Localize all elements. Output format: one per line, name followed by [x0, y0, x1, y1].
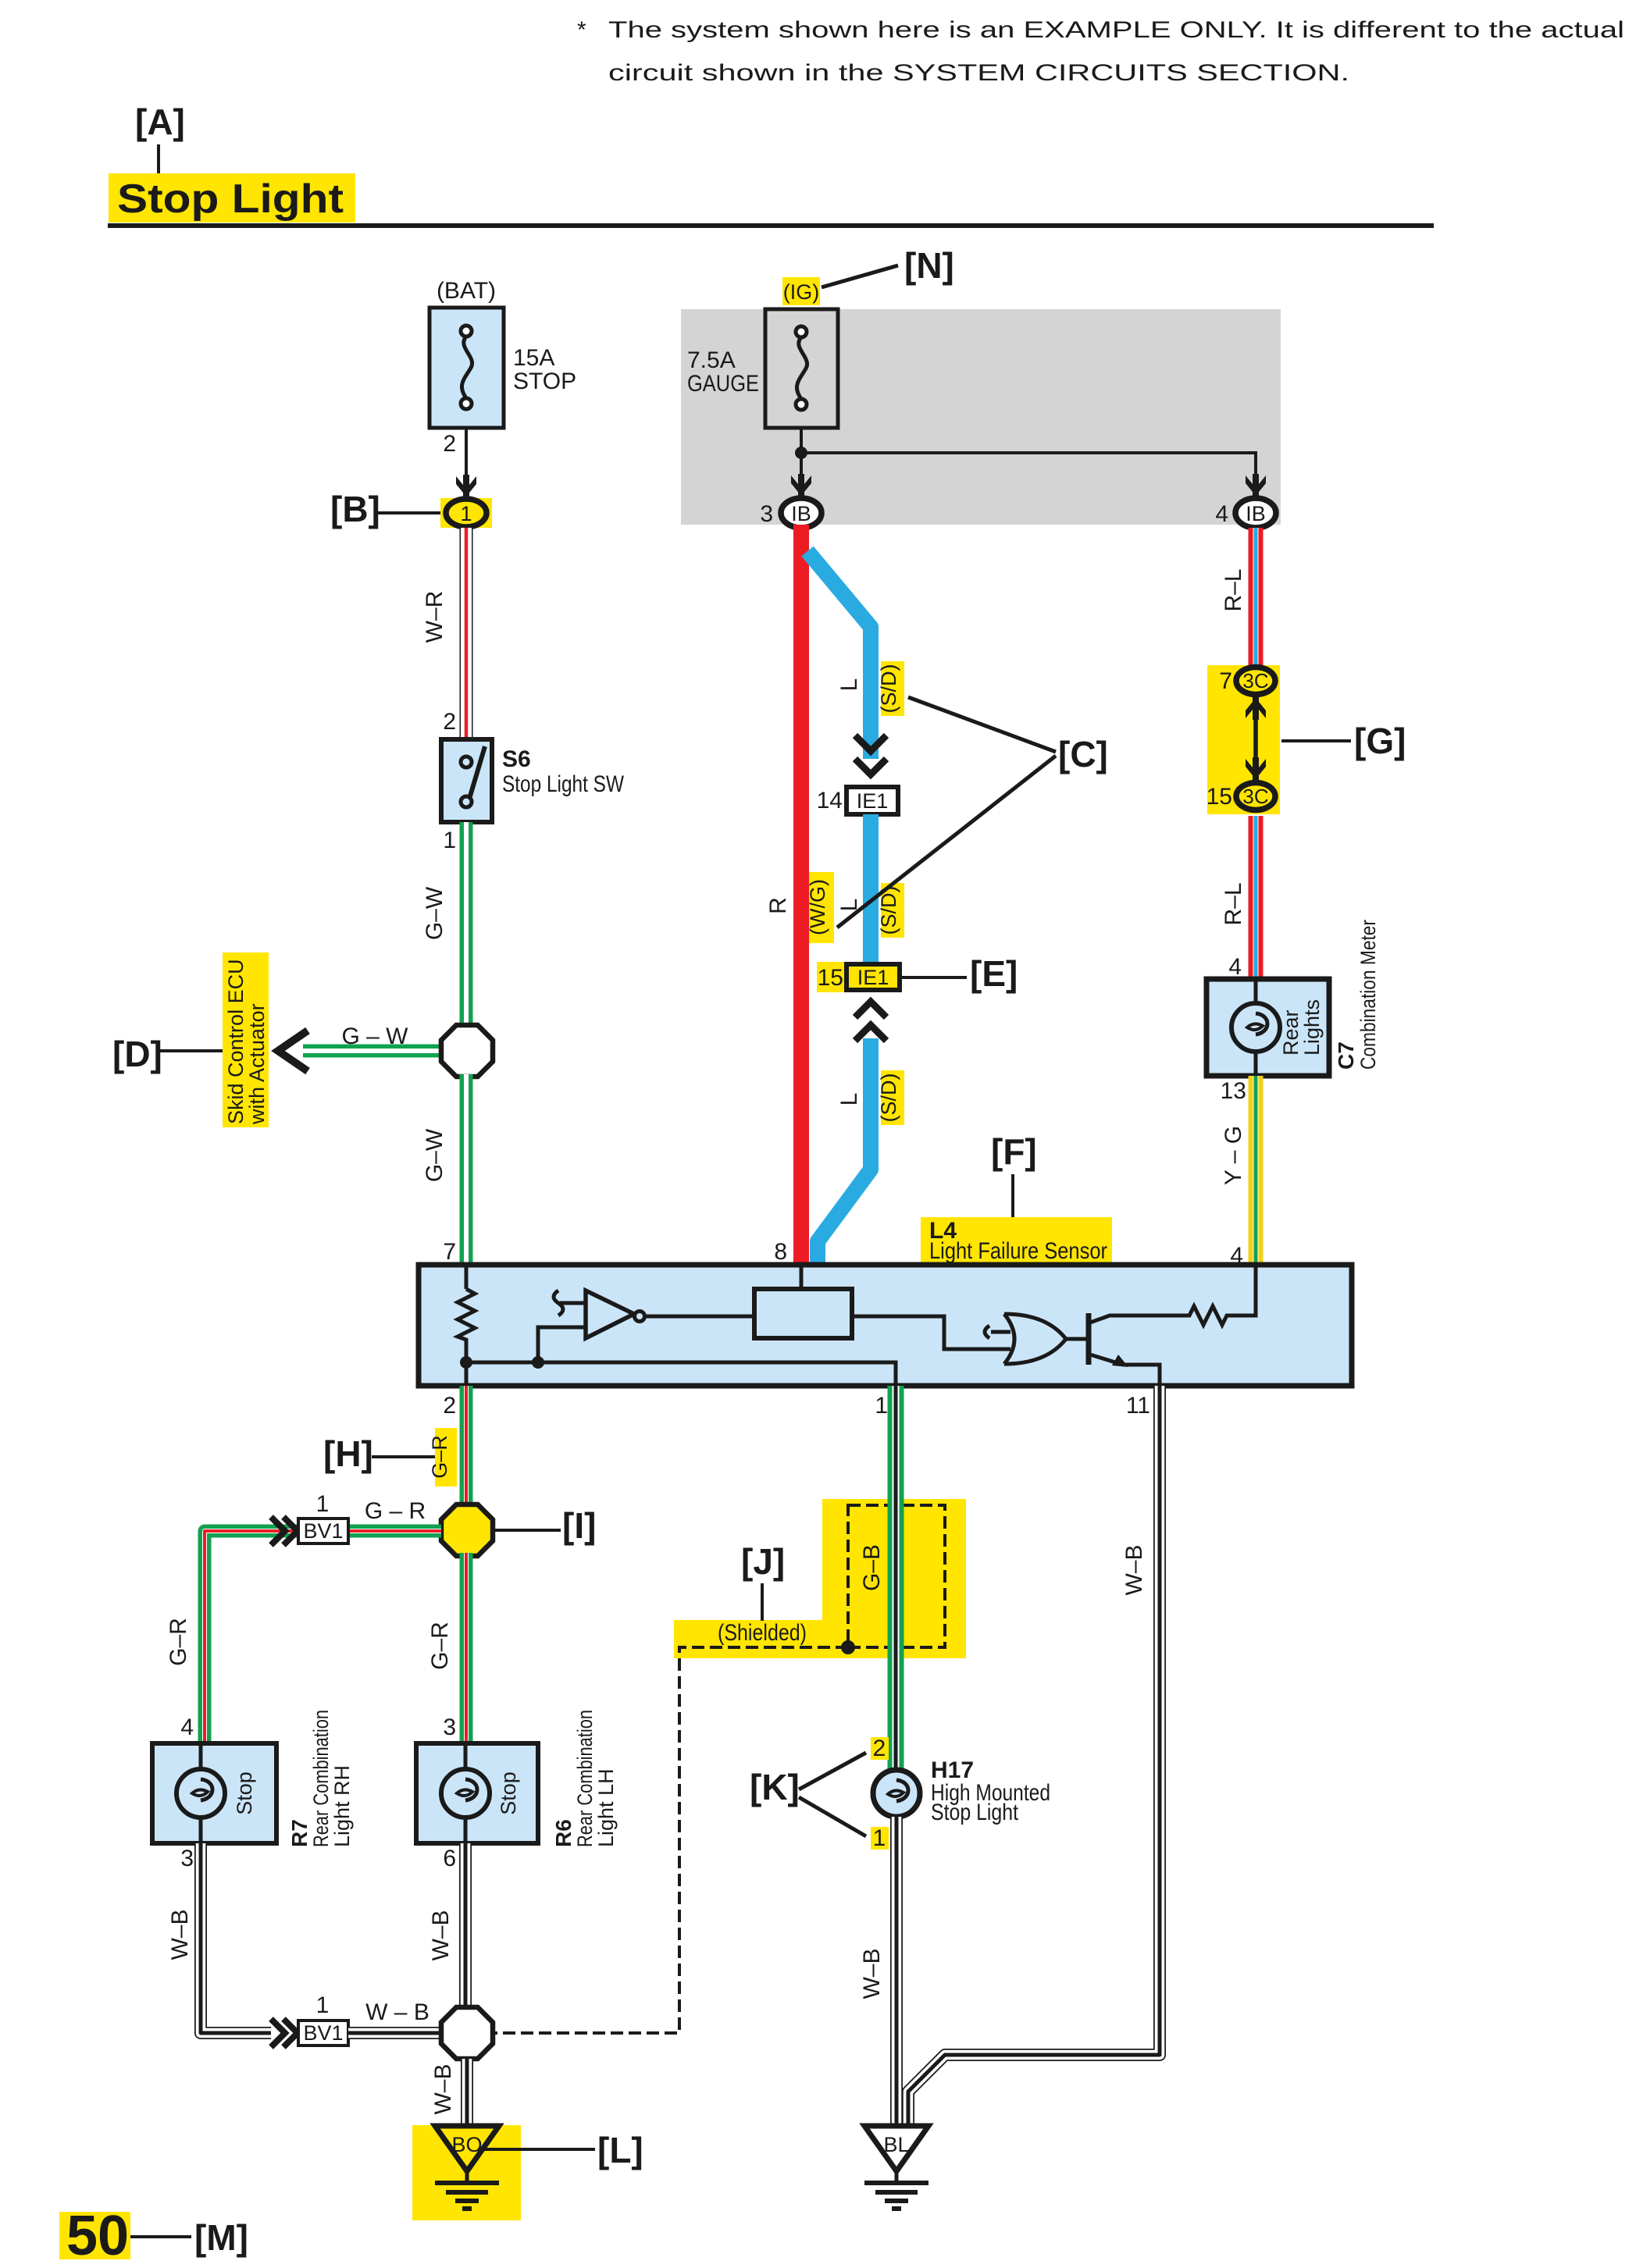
svg-text:IB: IB — [1246, 502, 1266, 525]
svg-text:STOP: STOP — [513, 369, 576, 394]
svg-text:IE1: IE1 — [857, 789, 889, 813]
svg-text:(BAT): (BAT) — [437, 278, 496, 304]
svg-text:Combination Meter: Combination Meter — [1356, 920, 1380, 1070]
svg-text:circuit shown in the SYSTEM CI: circuit shown in the SYSTEM CIRCUITS SEC… — [608, 60, 1349, 86]
svg-text:R–L: R–L — [1221, 882, 1246, 925]
svg-text:R6: R6 — [551, 1819, 576, 1847]
svg-text:G–R: G–R — [427, 1622, 453, 1670]
svg-text:4: 4 — [1228, 954, 1242, 980]
svg-text:Light Failure Sensor: Light Failure Sensor — [929, 1238, 1107, 1264]
svg-text:1: 1 — [875, 1393, 888, 1419]
svg-text:15A: 15A — [513, 345, 554, 371]
svg-text:7: 7 — [1219, 668, 1232, 694]
svg-text:Lights: Lights — [1300, 999, 1324, 1056]
svg-text:L: L — [836, 1093, 862, 1106]
svg-text:[J]: [J] — [741, 1541, 785, 1582]
svg-text:50: 50 — [66, 2205, 129, 2267]
svg-text:BO: BO — [451, 2133, 482, 2156]
svg-text:L: L — [836, 678, 862, 692]
svg-text:W–B: W–B — [428, 1910, 454, 1960]
svg-text:IE1: IE1 — [857, 966, 889, 989]
svg-text:1: 1 — [873, 1825, 886, 1851]
svg-text:2: 2 — [443, 431, 456, 457]
svg-text:Rear Combination: Rear Combination — [573, 1710, 597, 1847]
svg-text:1: 1 — [316, 1491, 330, 1517]
svg-text:C7: C7 — [1334, 1041, 1358, 1070]
svg-text:W–B: W–B — [1121, 1544, 1147, 1595]
svg-text:Rear Combination: Rear Combination — [309, 1710, 333, 1847]
svg-text:3: 3 — [760, 501, 773, 527]
svg-text:G–R: G–R — [166, 1618, 191, 1666]
svg-text:R7: R7 — [287, 1819, 312, 1847]
svg-text:8: 8 — [774, 1239, 787, 1265]
svg-text:Stop Light: Stop Light — [117, 176, 344, 222]
svg-text:15: 15 — [818, 965, 843, 991]
svg-text:(S/D): (S/D) — [877, 1073, 900, 1123]
svg-text:W–B: W–B — [859, 1948, 885, 1999]
svg-text:Light LH: Light LH — [594, 1768, 618, 1847]
svg-text:G – R: G – R — [365, 1498, 426, 1524]
svg-text:3: 3 — [443, 1714, 456, 1740]
svg-text:15: 15 — [1207, 784, 1232, 810]
svg-text:[G]: [G] — [1354, 721, 1406, 761]
svg-text:11: 11 — [1126, 1393, 1150, 1419]
svg-text:1: 1 — [316, 1992, 330, 2018]
svg-text:1: 1 — [460, 502, 472, 525]
svg-text:The system shown here is an EX: The system shown here is an EXAMPLE ONLY… — [608, 17, 1624, 43]
svg-text:GAUGE: GAUGE — [687, 371, 759, 397]
svg-text:S6: S6 — [502, 746, 531, 772]
svg-text:BV1: BV1 — [303, 1519, 343, 1543]
svg-text:(S/D): (S/D) — [877, 664, 900, 714]
svg-text:Skid Control ECU: Skid Control ECU — [224, 959, 248, 1124]
svg-text:[H]: [H] — [323, 1433, 373, 1474]
svg-text:(Shielded): (Shielded) — [718, 1620, 807, 1646]
svg-text:BL: BL — [883, 2133, 909, 2156]
svg-text:W–B: W–B — [167, 1909, 193, 1960]
svg-text:13: 13 — [1221, 1078, 1246, 1104]
svg-text:G–B: G–B — [859, 1544, 885, 1591]
svg-text:Stop: Stop — [497, 1771, 520, 1815]
svg-text:Stop Light SW: Stop Light SW — [502, 771, 625, 797]
svg-text:7.5A: 7.5A — [687, 347, 736, 373]
svg-text:G – W: G – W — [341, 1024, 408, 1049]
svg-text:[K]: [K] — [750, 1767, 800, 1807]
svg-text:4: 4 — [1215, 501, 1228, 527]
svg-text:[M]: [M] — [194, 2217, 248, 2258]
svg-text:Stop Light: Stop Light — [931, 1800, 1019, 1825]
svg-text:4: 4 — [180, 1714, 194, 1740]
svg-text:(W/G): (W/G) — [806, 879, 829, 935]
svg-text:W – B: W – B — [365, 1999, 429, 2025]
svg-text:1: 1 — [443, 828, 456, 853]
svg-text:BV1: BV1 — [303, 2021, 343, 2045]
svg-text:with Actuator: with Actuator — [245, 1003, 269, 1125]
svg-text:[N]: [N] — [904, 245, 954, 286]
svg-text:G–W: G–W — [422, 886, 447, 940]
svg-text:[C]: [C] — [1058, 734, 1108, 774]
svg-text:[F]: [F] — [991, 1131, 1037, 1172]
svg-text:2: 2 — [443, 709, 456, 735]
svg-text:Rear: Rear — [1279, 1009, 1303, 1056]
svg-text:W–B: W–B — [430, 2063, 456, 2114]
svg-text:[E]: [E] — [970, 953, 1018, 994]
svg-text:14: 14 — [817, 788, 843, 814]
svg-text:W–R: W–R — [422, 591, 447, 643]
svg-text:*: * — [577, 17, 586, 43]
svg-text:Y – G: Y – G — [1221, 1126, 1246, 1185]
svg-text:[L]: [L] — [597, 2130, 643, 2170]
svg-text:2: 2 — [443, 1393, 456, 1419]
svg-text:[B]: [B] — [330, 489, 380, 529]
svg-text:3C: 3C — [1242, 785, 1268, 808]
svg-text:R–L: R–L — [1221, 568, 1246, 611]
svg-text:IB: IB — [791, 502, 811, 525]
svg-text:[A]: [A] — [135, 101, 185, 142]
svg-text:Light RH: Light RH — [330, 1765, 354, 1847]
svg-text:Stop: Stop — [233, 1771, 256, 1815]
svg-text:3: 3 — [180, 1846, 194, 1871]
svg-text:[D]: [D] — [112, 1034, 162, 1074]
svg-text:(IG): (IG) — [783, 280, 820, 304]
svg-text:7: 7 — [443, 1239, 456, 1265]
svg-text:3C: 3C — [1242, 669, 1268, 693]
svg-text:G–W: G–W — [422, 1128, 447, 1182]
svg-text:R: R — [765, 897, 791, 914]
svg-text:[I]: [I] — [562, 1505, 596, 1546]
svg-text:2: 2 — [873, 1736, 886, 1761]
svg-text:6: 6 — [443, 1846, 456, 1871]
